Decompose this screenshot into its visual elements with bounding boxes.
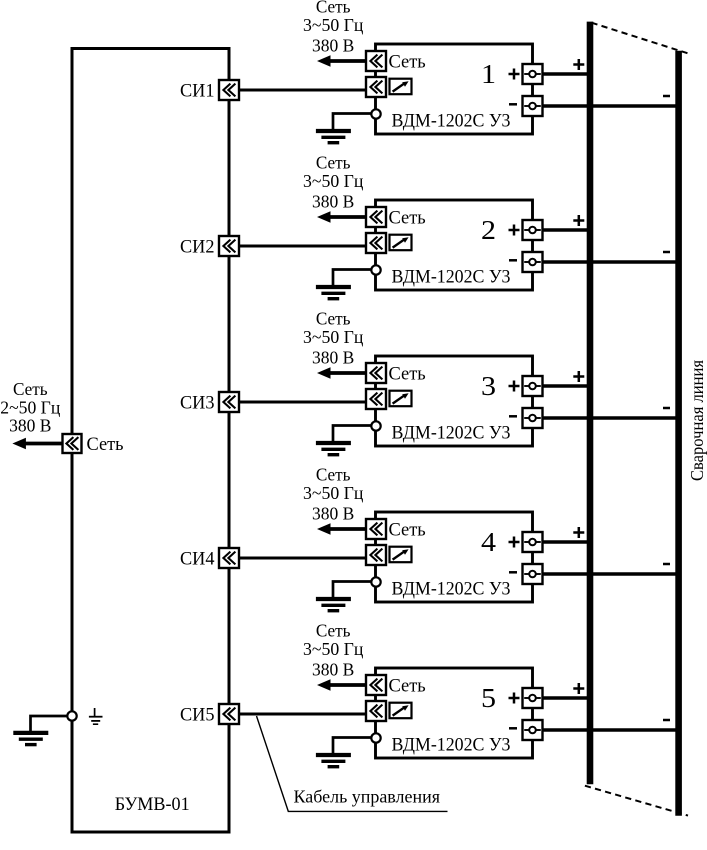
terminal − unit 1 [523, 96, 543, 116]
svg-text:СИ4: СИ4 [180, 549, 215, 569]
terminal + unit 1 [523, 64, 543, 84]
svg-text:Сеть: Сеть [316, 465, 351, 485]
label + at bus (unit 5) [573, 683, 584, 694]
control connector unit 4 [366, 545, 386, 565]
svg-text:2: 2 [481, 214, 496, 245]
label − at bus (unit 1) [663, 95, 670, 98]
svg-text:380 В: 380 В [312, 35, 354, 55]
svg-text:Сеть: Сеть [389, 52, 427, 73]
bus bar + (welding line left) [587, 22, 594, 785]
wire − output unit 2 to bus [533, 260, 682, 264]
svg-text:Кабель управления: Кабель управления [294, 787, 441, 807]
control connector unit 1 [366, 77, 386, 97]
remote regulation symbol unit 2 [390, 235, 412, 251]
connector Сеть unit 1 [366, 51, 386, 71]
node: ground terminal circle unit 4 [371, 577, 380, 586]
ground (earth symbol, БУМВ) [13, 733, 48, 745]
ground (earth symbol, unit 5) [316, 755, 351, 767]
svg-text:380 В: 380 В [9, 416, 51, 436]
wire + output unit 4 to bus [533, 540, 593, 544]
label − at unit 3 terminal [509, 415, 517, 418]
wire − output unit 1 to bus [533, 104, 682, 108]
rectifier unit 3: ВДМ-1202С У3 box [376, 356, 533, 446]
remote regulation symbol unit 4 [390, 547, 412, 563]
svg-text:Сварочная линия: Сварочная линия [687, 360, 707, 481]
connector Сеть unit 3 [366, 363, 386, 383]
svg-text:Сеть: Сеть [87, 434, 124, 455]
terminal − unit 2 [523, 252, 543, 272]
connector СИ3 on БУМВ-01 [219, 392, 239, 412]
label − at unit 5 terminal [509, 727, 517, 730]
terminal + unit 3 [523, 376, 543, 396]
label + at unit 4 terminal [509, 537, 520, 548]
svg-text:БУМВ-01: БУМВ-01 [115, 794, 190, 815]
svg-text:ВДМ-1202С У3: ВДМ-1202С У3 [392, 266, 511, 287]
remote regulation symbol unit 3 [390, 391, 412, 407]
control connector unit 2 [366, 233, 386, 253]
svg-text:380 В: 380 В [312, 503, 354, 523]
svg-text:4: 4 [481, 526, 496, 557]
ground (earth symbol, unit 3) [316, 443, 351, 455]
node: ground terminal circle on БУМВ left edge [67, 711, 76, 720]
svg-text:3~50 Гц: 3~50 Гц [303, 327, 363, 347]
svg-text:Сеть: Сеть [389, 520, 427, 541]
label − at unit 4 terminal [509, 571, 517, 574]
svg-text:СИ1: СИ1 [180, 81, 215, 101]
svg-text:380 В: 380 В [312, 191, 354, 211]
label − at bus (unit 5) [663, 719, 670, 722]
mains input arrow unit 2 [317, 211, 367, 223]
wire СИ5 to unit 5 control input [229, 713, 367, 716]
terminal − unit 3 [523, 408, 543, 428]
connector СИ2 on БУМВ-01 [219, 236, 239, 256]
terminal − unit 4 [523, 564, 543, 584]
svg-text:Сеть: Сеть [316, 309, 351, 329]
label − at bus (unit 2) [663, 251, 670, 254]
svg-text:Сеть: Сеть [389, 364, 427, 385]
label + at unit 3 terminal [509, 381, 520, 392]
connector СИ5 on БУМВ-01 [219, 704, 239, 724]
connector Сеть on БУМВ-01 [63, 434, 82, 453]
node: ground terminal circle unit 3 [371, 421, 380, 430]
svg-text:ВДМ-1202С У3: ВДМ-1202С У3 [392, 422, 511, 443]
mains input arrow unit 4 [317, 523, 367, 535]
connector Сеть unit 4 [366, 519, 386, 539]
connector Сеть unit 5 [366, 675, 386, 695]
mains input arrow unit 1 [317, 55, 367, 67]
connector СИ4 on БУМВ-01 [219, 548, 239, 568]
svg-text:3~50 Гц: 3~50 Гц [303, 15, 363, 35]
svg-text:Сеть: Сеть [13, 379, 48, 399]
wire to ground (unit 1) [333, 114, 372, 130]
node: ground terminal circle unit 2 [371, 265, 380, 274]
svg-text:380 В: 380 В [312, 659, 354, 679]
wire to ground (unit 3) [333, 426, 372, 442]
svg-text:3~50 Гц: 3~50 Гц [303, 483, 363, 503]
svg-text:Сеть: Сеть [316, 153, 351, 173]
wire СИ1 to unit 1 control input [229, 89, 367, 92]
svg-text:ВДМ-1202С У3: ВДМ-1202С У3 [392, 110, 511, 131]
wire СИ4 to unit 4 control input [229, 557, 367, 560]
svg-text:СИ5: СИ5 [180, 705, 215, 725]
svg-text:3~50 Гц: 3~50 Гц [303, 171, 363, 191]
svg-text:5: 5 [481, 682, 496, 713]
remote regulation symbol unit 1 [390, 79, 412, 95]
node: ground terminal circle unit 5 [371, 733, 380, 742]
ground (earth symbol, unit 2) [316, 287, 351, 299]
label + at bus (unit 1) [573, 59, 584, 70]
terminal + unit 5 [523, 688, 543, 708]
label − at unit 1 terminal [509, 103, 517, 106]
svg-text:1: 1 [481, 58, 496, 89]
wire СИ2 to unit 2 control input [229, 245, 367, 248]
wire to ground (БУМВ) [31, 716, 68, 731]
connector Сеть unit 2 [366, 207, 386, 227]
svg-text:3: 3 [481, 370, 496, 401]
wire + output unit 2 to bus [533, 228, 593, 232]
wire − output unit 3 to bus [533, 416, 682, 420]
terminal − unit 5 [523, 720, 543, 740]
svg-text:380 В: 380 В [312, 347, 354, 367]
svg-text:3~50 Гц: 3~50 Гц [303, 639, 363, 659]
ground (earth symbol, unit 1) [316, 131, 351, 143]
rectifier unit 1: ВДМ-1202С У3 box [376, 44, 533, 134]
label − at unit 2 terminal [509, 259, 517, 262]
wire + output unit 1 to bus [533, 72, 593, 76]
control unit БУМВ-01 box [72, 49, 229, 833]
svg-text:Сеть: Сеть [389, 676, 427, 697]
ground (earth symbol, unit 4) [316, 599, 351, 611]
terminal + unit 4 [523, 532, 543, 552]
rectifier unit 4: ВДМ-1202С У3 box [376, 512, 533, 602]
svg-text:2~50 Гц: 2~50 Гц [0, 398, 60, 418]
wire СИ3 to unit 3 control input [229, 401, 367, 404]
rectifier unit 5: ВДМ-1202С У3 box [376, 668, 533, 758]
svg-text:ВДМ-1202С У3: ВДМ-1202С У3 [392, 734, 511, 755]
mains input arrow БУМВ [12, 438, 63, 450]
label − at bus (unit 3) [663, 407, 670, 410]
label + at bus (unit 2) [573, 215, 584, 226]
svg-text:СИ3: СИ3 [180, 393, 215, 413]
svg-text:ВДМ-1202С У3: ВДМ-1202С У3 [392, 578, 511, 599]
leader line Кабель управления [257, 716, 448, 811]
bus bar − (welding line right) [675, 51, 682, 816]
wire to ground (unit 5) [333, 738, 372, 754]
rectifier unit 2: ВДМ-1202С У3 box [376, 200, 533, 290]
label + at unit 1 terminal [509, 69, 520, 80]
wire − output unit 5 to bus [533, 728, 682, 732]
svg-text:Сеть: Сеть [389, 208, 427, 229]
label + at unit 5 terminal [509, 693, 520, 704]
wire + output unit 5 to bus [533, 696, 593, 700]
node: ground terminal circle unit 1 [371, 109, 380, 118]
label + at bus (unit 3) [573, 371, 584, 382]
label − at bus (unit 4) [663, 563, 670, 566]
wire to ground (unit 4) [333, 582, 372, 598]
wire − output unit 4 to bus [533, 572, 682, 576]
protective earth mark beside terminal [89, 708, 103, 724]
label + at unit 2 terminal [509, 225, 520, 236]
wire + output unit 3 to bus [533, 384, 593, 388]
terminal + unit 2 [523, 220, 543, 240]
wire to ground (unit 2) [333, 270, 372, 286]
mains input arrow unit 3 [317, 367, 367, 379]
control connector unit 3 [366, 389, 386, 409]
control connector unit 5 [366, 701, 386, 721]
label + at bus (unit 4) [573, 527, 584, 538]
remote regulation symbol unit 5 [390, 703, 412, 719]
dashed continuation bottom [585, 786, 688, 816]
dashed continuation top [592, 23, 689, 54]
mains input arrow unit 5 [317, 679, 367, 691]
svg-text:СИ2: СИ2 [180, 237, 215, 257]
svg-text:Сеть: Сеть [316, 621, 351, 641]
connector СИ1 on БУМВ-01 [219, 80, 239, 100]
